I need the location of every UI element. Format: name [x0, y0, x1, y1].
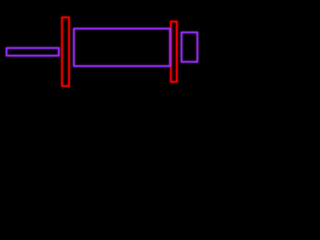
- plate P2 (right red electrode bar): [171, 22, 177, 82]
- body B1 (large purple component body): [74, 29, 170, 67]
- lead L1 (left purple lead bar): [7, 48, 59, 56]
- plate P1 (left red electrode bar): [62, 17, 69, 86]
- circuit schematic: crystal-style component with two electrode plates, glowing strokes on black: [0, 0, 200, 105]
- terminal T1 (small purple terminal block, right): [182, 32, 198, 61]
